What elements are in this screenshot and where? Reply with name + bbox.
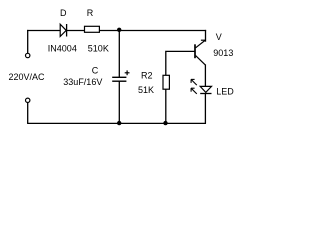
svg-text:C: C <box>92 65 99 75</box>
wire LED cathode to bottom rail <box>204 94 206 124</box>
terminal bottom (220V/AC input) <box>26 98 30 102</box>
svg-text:510K: 510K <box>88 44 109 54</box>
wire capacitor upper lead <box>118 31 120 78</box>
wire base lead (corner to transistor base) <box>166 51 195 75</box>
svg-text:V: V <box>216 32 222 42</box>
node junction dot bottom (capacitor to bottom rail) <box>117 121 121 125</box>
svg-text:R: R <box>87 8 94 18</box>
wire top rail right segment (resistor to transistor corner) <box>99 30 206 32</box>
capacitor polarity plus sign <box>125 70 130 75</box>
svg-text:220V/AC: 220V/AC <box>9 72 46 82</box>
terminal top (220V/AC input) <box>26 53 30 57</box>
node junction dot (R2 to bottom rail) <box>163 121 167 125</box>
svg-text:51K: 51K <box>138 85 154 95</box>
svg-text:R2: R2 <box>141 70 153 80</box>
capacitor C 33uF/16V <box>112 77 126 81</box>
wire left top vertical (terminal to rail) <box>27 30 29 54</box>
LED light emission arrow 1 <box>191 79 197 85</box>
svg-text:LED: LED <box>216 86 234 96</box>
svg-text:33uF/16V: 33uF/16V <box>63 77 102 87</box>
wire capacitor lower lead <box>118 81 120 123</box>
wire collector to LED <box>204 64 206 86</box>
resistor R 510K <box>85 26 100 32</box>
diode D IN4004 <box>60 24 66 37</box>
svg-text:D: D <box>60 8 67 18</box>
LED light emission arrow 2 <box>191 88 197 94</box>
svg-text:9013: 9013 <box>213 48 233 58</box>
transistor V 9013 <box>195 30 206 65</box>
svg-text:IN4004: IN4004 <box>48 44 77 54</box>
wire left bottom vertical (terminal to bottom rail) <box>27 102 29 123</box>
wire top rail middle segment (diode to resistor) <box>67 30 85 32</box>
node junction dot top (rail to capacitor) <box>117 28 121 32</box>
resistor R2 51K <box>163 75 169 89</box>
wire top rail left segment <box>27 30 60 32</box>
LED <box>200 86 211 93</box>
wire R2 lower lead <box>165 89 167 123</box>
wire bottom rail <box>27 122 206 124</box>
